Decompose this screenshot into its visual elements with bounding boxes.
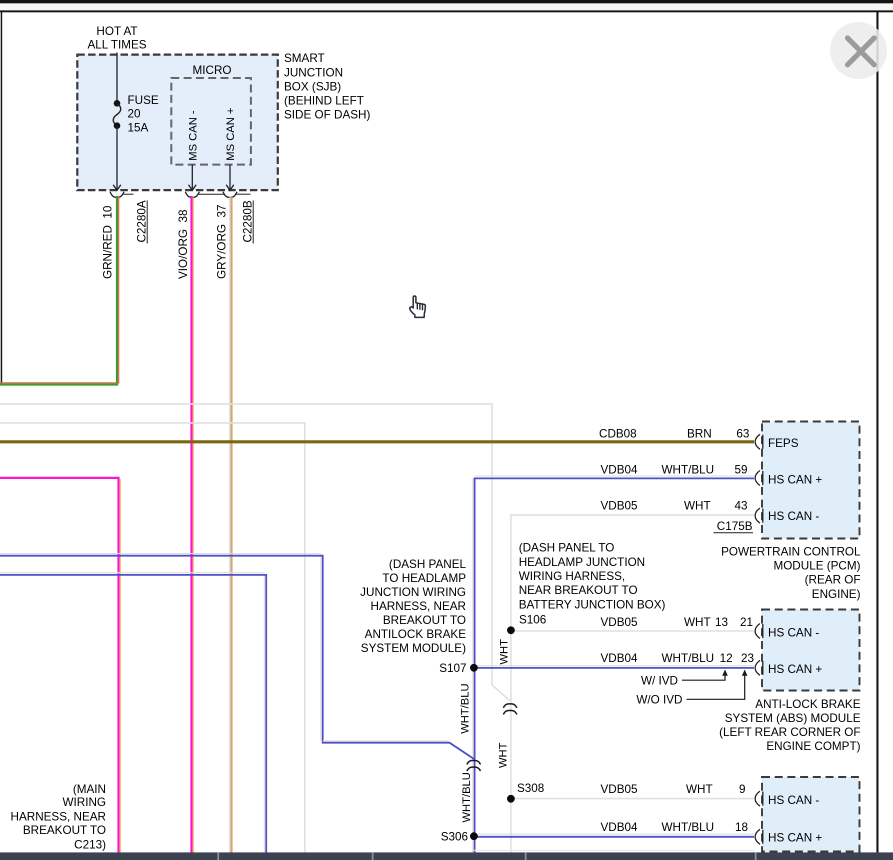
svg-text:HS CAN +: HS CAN + xyxy=(768,474,822,487)
svg-text:WIRING: WIRING xyxy=(63,796,107,809)
svg-text:12: 12 xyxy=(720,652,733,665)
svg-text:BRN: BRN xyxy=(687,427,712,440)
svg-text:BOX (SJB): BOX (SJB) xyxy=(284,81,341,94)
svg-text:S308: S308 xyxy=(517,782,544,795)
svg-text:HEADLAMP JUNCTION: HEADLAMP JUNCTION xyxy=(519,556,645,569)
svg-text:VDB05: VDB05 xyxy=(601,783,639,796)
svg-text:VDB04: VDB04 xyxy=(601,463,639,476)
svg-text:FUSE: FUSE xyxy=(128,94,159,107)
svg-text:VDB05: VDB05 xyxy=(601,499,639,512)
svg-text:HS CAN +: HS CAN + xyxy=(768,663,822,676)
svg-text:(DASH PANEL: (DASH PANEL xyxy=(389,558,467,571)
svg-text:JUNCTION: JUNCTION xyxy=(284,66,343,79)
svg-text:MICRO: MICRO xyxy=(193,64,232,77)
svg-text:VDB04: VDB04 xyxy=(601,821,639,834)
svg-text:ALL TIMES: ALL TIMES xyxy=(87,39,146,52)
svg-text:BATTERY JUNCTION BOX): BATTERY JUNCTION BOX) xyxy=(519,599,666,612)
svg-text:BREAKOUT TO: BREAKOUT TO xyxy=(23,824,106,837)
svg-text:VIO/ORG 38: VIO/ORG 38 xyxy=(177,209,190,279)
svg-text:SIDE OF DASH): SIDE OF DASH) xyxy=(284,109,370,122)
svg-text:63: 63 xyxy=(736,427,749,440)
svg-text:HARNESS, NEAR: HARNESS, NEAR xyxy=(11,810,106,823)
svg-text:15A: 15A xyxy=(128,122,149,135)
svg-text:WHT: WHT xyxy=(498,639,510,665)
svg-text:C175B: C175B xyxy=(717,520,753,533)
svg-text:S306: S306 xyxy=(441,830,468,843)
svg-text:JUNCTION WIRING: JUNCTION WIRING xyxy=(360,586,466,599)
svg-text:(MAIN: (MAIN xyxy=(73,783,106,796)
svg-text:ANTILOCK BRAKE: ANTILOCK BRAKE xyxy=(365,628,467,641)
svg-text:9: 9 xyxy=(739,783,746,796)
svg-text:21: 21 xyxy=(740,616,753,629)
svg-text:C213): C213) xyxy=(74,838,106,851)
svg-text:FEPS: FEPS xyxy=(768,437,799,450)
svg-text:HS CAN -: HS CAN - xyxy=(768,510,819,523)
svg-text:WHT/BLU: WHT/BLU xyxy=(662,821,715,834)
svg-text:HARNESS, NEAR: HARNESS, NEAR xyxy=(371,600,466,613)
svg-text:WHT/BLU: WHT/BLU xyxy=(461,772,473,822)
svg-text:(DASH PANEL TO: (DASH PANEL TO xyxy=(519,542,615,555)
svg-text:WHT: WHT xyxy=(686,783,713,796)
svg-text:MS CAN -: MS CAN - xyxy=(187,110,199,161)
svg-text:23: 23 xyxy=(741,652,754,665)
svg-text:WHT/BLU: WHT/BLU xyxy=(662,652,715,665)
svg-text:GRY/ORG 37: GRY/ORG 37 xyxy=(216,205,229,279)
svg-text:VDB04: VDB04 xyxy=(601,652,639,665)
svg-text:BREAKOUT TO: BREAKOUT TO xyxy=(383,614,466,627)
svg-text:HS CAN +: HS CAN + xyxy=(768,832,822,845)
svg-text:W/O IVD: W/O IVD xyxy=(636,693,682,706)
svg-text:(LEFT REAR CORNER OF: (LEFT REAR CORNER OF xyxy=(719,726,860,739)
svg-text:SYSTEM MODULE): SYSTEM MODULE) xyxy=(361,642,466,655)
svg-text:S107: S107 xyxy=(439,662,466,675)
svg-text:TO HEADLAMP: TO HEADLAMP xyxy=(382,572,466,585)
svg-text:WIRING HARNESS,: WIRING HARNESS, xyxy=(519,570,626,583)
svg-text:WHT: WHT xyxy=(497,742,509,768)
svg-text:W/ IVD: W/ IVD xyxy=(641,674,678,687)
svg-text:20: 20 xyxy=(128,108,142,121)
svg-text:ANTI-LOCK BRAKE: ANTI-LOCK BRAKE xyxy=(755,698,860,711)
svg-text:SMART: SMART xyxy=(284,52,325,65)
svg-text:NEAR BREAKOUT TO: NEAR BREAKOUT TO xyxy=(519,584,638,597)
svg-text:MS CAN +: MS CAN + xyxy=(225,108,237,161)
svg-text:13: 13 xyxy=(715,616,728,629)
svg-text:VDB05: VDB05 xyxy=(601,616,639,629)
svg-text:WHT: WHT xyxy=(684,616,711,629)
svg-text:(REAR OF: (REAR OF xyxy=(805,574,861,587)
svg-text:SYSTEM (ABS) MODULE: SYSTEM (ABS) MODULE xyxy=(725,712,861,725)
svg-text:ENGINE COMPT): ENGINE COMPT) xyxy=(766,740,860,753)
svg-text:S106: S106 xyxy=(519,614,546,627)
svg-text:59: 59 xyxy=(734,463,747,476)
svg-text:GRN/RED 10: GRN/RED 10 xyxy=(102,205,115,279)
svg-text:WHT/BLU: WHT/BLU xyxy=(662,463,715,476)
svg-text:WHT: WHT xyxy=(684,499,711,512)
svg-text:CDB08: CDB08 xyxy=(599,427,637,440)
svg-text:HS CAN -: HS CAN - xyxy=(768,627,819,640)
svg-text:18: 18 xyxy=(735,821,748,834)
svg-text:ENGINE): ENGINE) xyxy=(812,588,861,601)
svg-text:MODULE (PCM): MODULE (PCM) xyxy=(773,559,860,572)
svg-text:POWERTRAIN CONTROL: POWERTRAIN CONTROL xyxy=(721,545,861,558)
svg-text:43: 43 xyxy=(734,499,747,512)
svg-text:HS CAN -: HS CAN - xyxy=(768,794,819,807)
svg-text:(BEHIND LEFT: (BEHIND LEFT xyxy=(284,95,364,108)
svg-text:HOT AT: HOT AT xyxy=(96,25,137,38)
svg-text:WHT/BLU: WHT/BLU xyxy=(460,683,472,733)
